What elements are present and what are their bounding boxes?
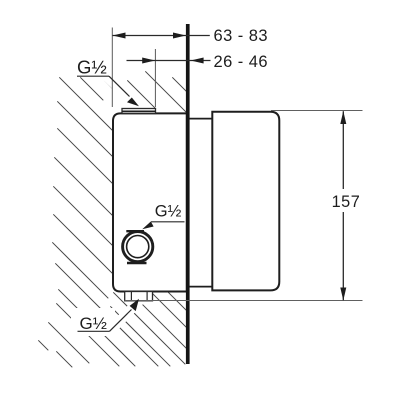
svg-text:G½: G½ <box>80 314 107 333</box>
svg-text:63 - 83: 63 - 83 <box>214 27 269 45</box>
svg-text:G½: G½ <box>155 203 182 221</box>
svg-text:26 - 46: 26 - 46 <box>214 53 269 71</box>
svg-text:G½: G½ <box>77 57 107 78</box>
svg-text:157: 157 <box>332 193 361 211</box>
